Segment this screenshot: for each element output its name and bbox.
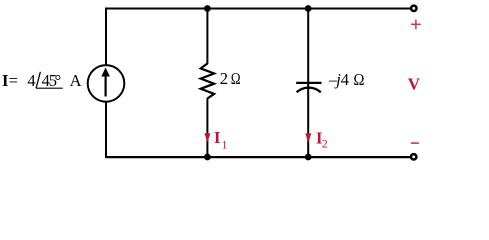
label current I2 (316, 128, 328, 150)
label resistor value 2 ohm (220, 69, 241, 89)
svg-text:I: I (2, 71, 8, 90)
wire resistor branch upper (206, 9, 208, 64)
wire bottom horizontal (106, 156, 410, 158)
current arrow I1 (204, 133, 210, 142)
svg-text:V: V (408, 75, 421, 94)
resistor R 2 ohm zigzag (201, 64, 214, 99)
svg-text:4: 4 (27, 71, 35, 90)
svg-text:Ω: Ω (353, 71, 364, 89)
junction dot top-right node (305, 5, 312, 12)
junction dot bottom-right node (305, 154, 312, 161)
svg-text:=: = (9, 71, 18, 90)
junction dot bottom-left node (204, 154, 211, 161)
current arrow I2 (305, 133, 311, 142)
svg-text:4: 4 (341, 70, 349, 89)
svg-text:°: ° (55, 71, 62, 90)
label minus sign (411, 142, 419, 144)
terminal plus open circle (411, 6, 416, 11)
svg-text:A: A (70, 71, 82, 90)
terminal minus open circle (411, 154, 416, 159)
svg-text:I: I (214, 128, 220, 147)
current source I circle (88, 65, 125, 102)
junction dot top-left node (204, 5, 211, 12)
wire capacitor branch (307, 9, 309, 158)
wire left lower (105, 102, 107, 158)
capacitor C top plate (296, 82, 321, 84)
wire left upper (105, 8, 107, 65)
wire resistor branch lower (206, 98, 208, 157)
svg-text:2: 2 (220, 69, 228, 88)
svg-text:2: 2 (322, 137, 328, 151)
svg-text:1: 1 (222, 137, 228, 151)
label source I = 4/45 A (2, 71, 82, 90)
current source arrow (101, 68, 110, 97)
wire top horizontal (106, 8, 410, 10)
label current I1 (214, 128, 228, 151)
svg-text:Ω: Ω (231, 71, 241, 89)
label capacitor value -j4 ohm (328, 70, 365, 89)
capacitor C curved bottom plate (297, 88, 321, 93)
label plus sign (411, 20, 421, 30)
